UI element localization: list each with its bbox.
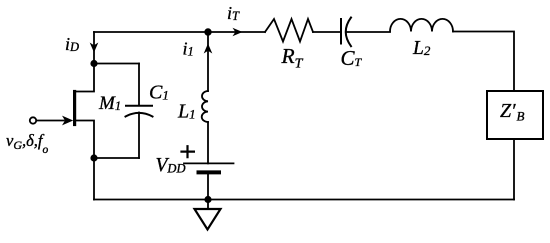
wire L1 to battery [207, 122, 209, 163]
input terminal [30, 117, 36, 123]
svg-text:iT: iT [227, 3, 240, 23]
wire top horizontal left segment [94, 31, 265, 33]
battery VDD long plate [184, 162, 234, 164]
svg-text:iD: iD [65, 34, 79, 54]
node drain junction [90, 60, 97, 67]
svg-text:L2: L2 [412, 38, 431, 59]
inductor L2 [390, 19, 453, 32]
svg-text:CT: CT [341, 46, 363, 70]
transistor M1 channel bar [73, 92, 76, 125]
resistor RT [265, 19, 313, 42]
gate arrowhead [62, 116, 73, 126]
transistor M1 drain lead [76, 64, 94, 92]
current arrow i1 [204, 44, 213, 54]
wire ground stub [207, 200, 209, 210]
svg-text:Z′B: Z′B [500, 100, 525, 124]
node source junction [90, 154, 97, 161]
svg-text:C1: C1 [149, 82, 169, 104]
node top junction [204, 28, 211, 35]
wire bottom horizontal [94, 199, 514, 201]
wire bottom-left vertical [93, 158, 95, 200]
node battery junction [204, 196, 211, 203]
capacitor C1 plate curved [126, 113, 153, 117]
wire CT to L2 [346, 31, 390, 33]
wire C1 top lead [138, 64, 140, 106]
capacitor C1 plate straight [126, 105, 152, 107]
wire C1 top branch [94, 63, 139, 65]
capacitor CT plate left [340, 19, 342, 44]
battery VDD short plate [199, 170, 220, 174]
wire gate lead [36, 120, 64, 122]
current arrow iD [90, 43, 99, 53]
svg-text:RT: RT [281, 44, 304, 72]
current arrow iT [233, 28, 243, 37]
load box Z'B [487, 91, 543, 139]
wire top-left drain riser [93, 32, 95, 64]
svg-text:i1: i1 [183, 39, 194, 59]
transistor M1 source lead [76, 121, 94, 159]
inductor L1 [202, 91, 208, 122]
wire battery to bottom [207, 174, 209, 199]
wire L2 to right corner [453, 32, 514, 92]
svg-text:VDD: VDD [156, 155, 186, 176]
wire L1 riser [207, 32, 209, 91]
wire box bottom [513, 139, 515, 200]
svg-text:vG,δ,fo: vG,δ,fo [6, 131, 49, 156]
svg-text:L1: L1 [177, 101, 196, 123]
ground [195, 209, 221, 230]
wire RT to CT [313, 31, 341, 33]
svg-text:M1: M1 [98, 93, 121, 114]
wire C1 bottom branch [94, 157, 139, 159]
battery VDD plus sign [182, 146, 194, 157]
wire C1 bottom lead [138, 113, 140, 159]
capacitor CT plate right curved [346, 18, 351, 47]
